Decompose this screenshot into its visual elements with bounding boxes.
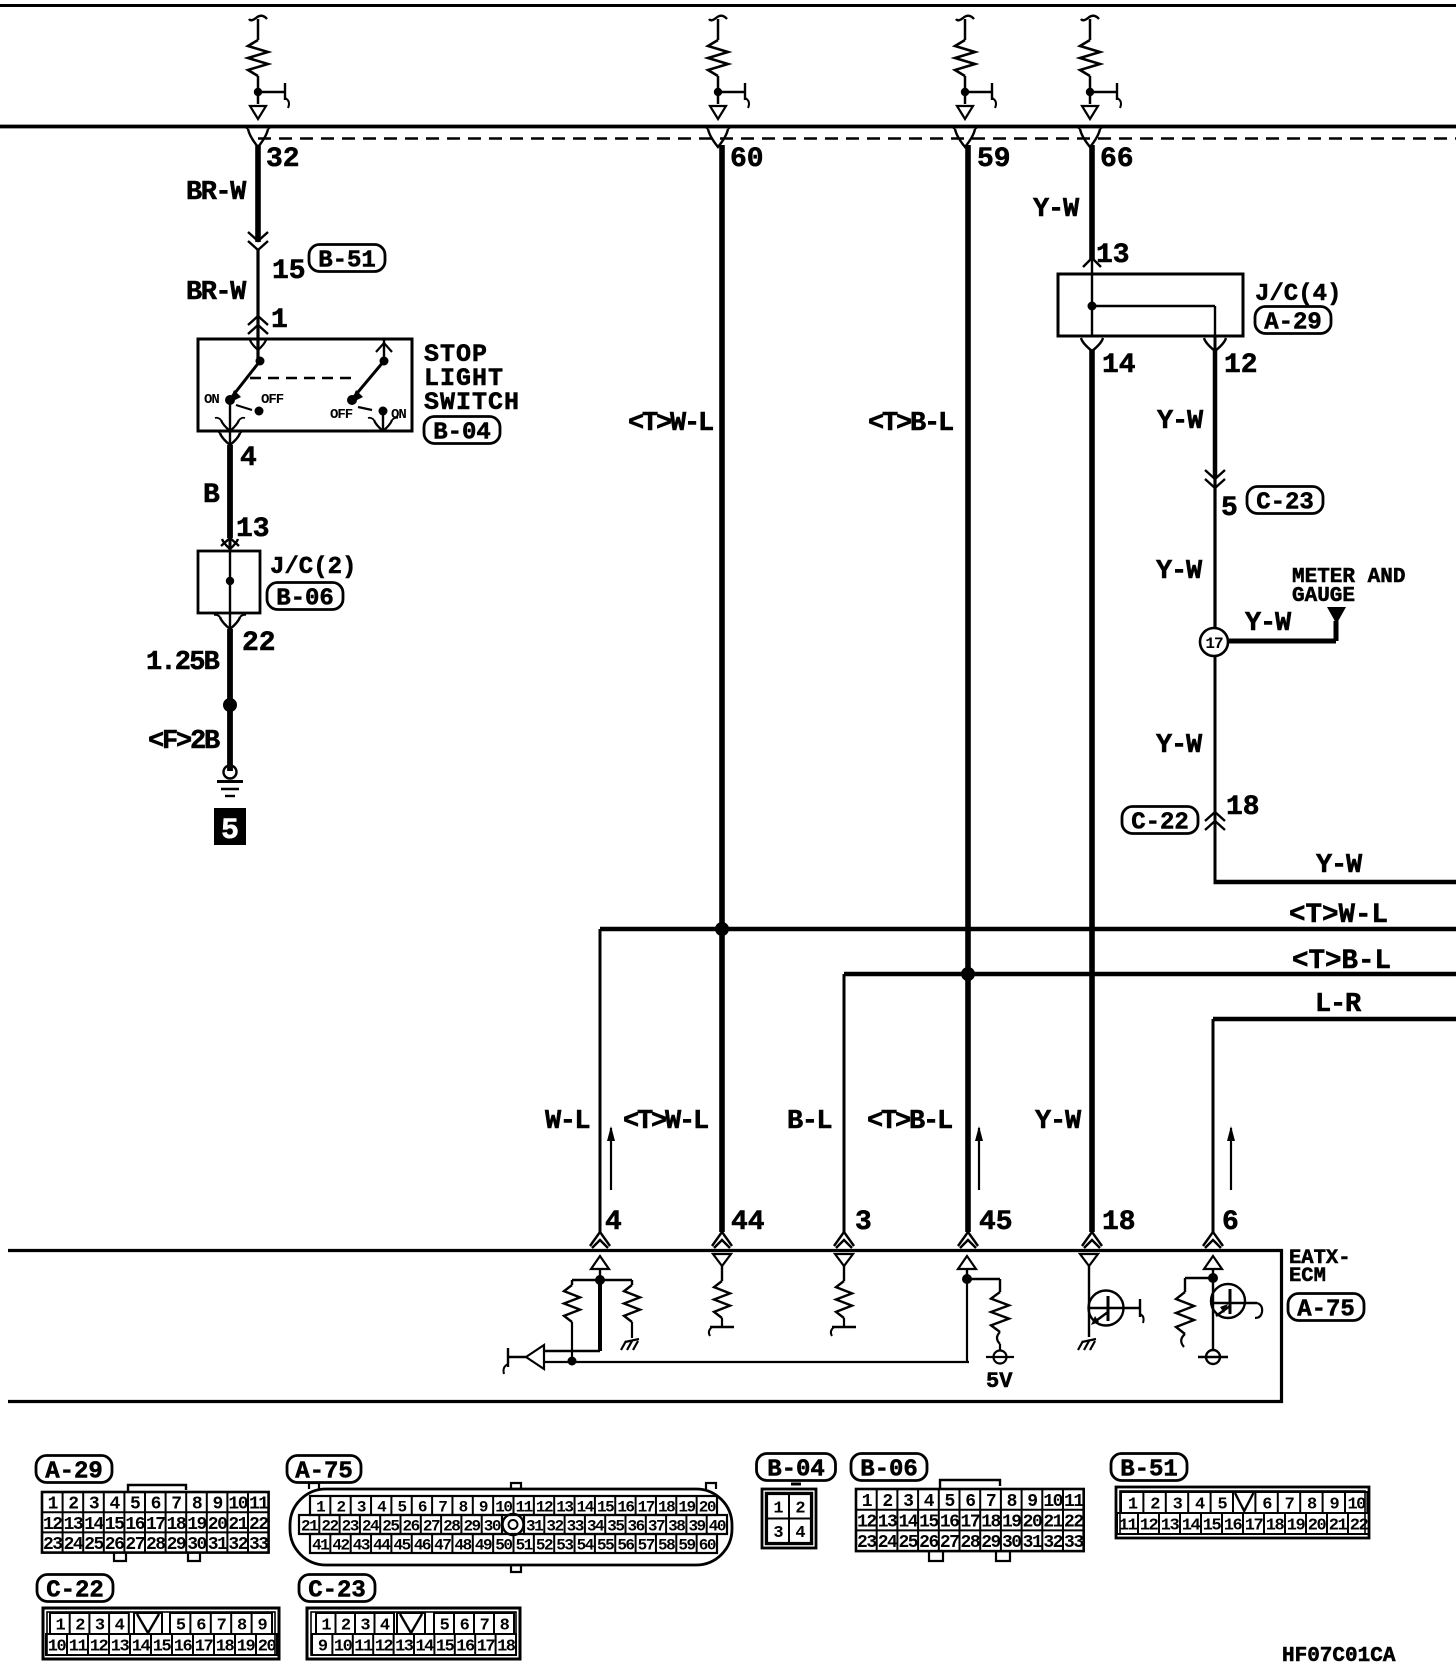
svg-text:8: 8 (1007, 1492, 1017, 1512)
svg-text:HF07C01CA: HF07C01CA (1282, 1645, 1396, 1668)
svg-text:38: 38 (668, 1517, 685, 1535)
svg-text:30: 30 (187, 1535, 206, 1555)
svg-text:C-22: C-22 (46, 1578, 104, 1605)
svg-text:1: 1 (773, 1499, 783, 1518)
svg-text:25: 25 (898, 1533, 917, 1553)
svg-text:8: 8 (1307, 1496, 1317, 1515)
svg-text:20: 20 (1308, 1517, 1327, 1536)
svg-text:3: 3 (773, 1524, 783, 1543)
svg-text:27: 27 (423, 1517, 440, 1535)
svg-text:6: 6 (418, 1498, 427, 1516)
svg-text:16: 16 (1224, 1517, 1243, 1536)
svg-text:58: 58 (658, 1536, 675, 1554)
svg-text:13: 13 (395, 1638, 414, 1657)
svg-text:2: 2 (75, 1617, 85, 1636)
svg-text:4: 4 (380, 1617, 390, 1636)
svg-text:13: 13 (1161, 1517, 1180, 1536)
svg-text:7: 7 (217, 1617, 227, 1636)
svg-text:23: 23 (43, 1535, 62, 1555)
svg-text:24: 24 (362, 1517, 380, 1535)
svg-text:29: 29 (167, 1535, 186, 1555)
svg-text:BR-W: BR-W (186, 178, 247, 208)
svg-text:A-29: A-29 (45, 1459, 103, 1486)
svg-text:<T>W-L: <T>W-L (623, 1107, 708, 1137)
svg-text:4: 4 (605, 1207, 622, 1238)
svg-text:2: 2 (1150, 1496, 1160, 1515)
svg-text:6: 6 (965, 1492, 975, 1512)
svg-text:33: 33 (567, 1517, 584, 1535)
svg-text:16: 16 (940, 1513, 959, 1533)
svg-text:8: 8 (500, 1617, 510, 1636)
svg-text:34: 34 (587, 1517, 605, 1535)
svg-text:12: 12 (90, 1638, 109, 1657)
svg-text:13: 13 (111, 1638, 130, 1657)
svg-text:11: 11 (1064, 1492, 1084, 1512)
svg-text:5: 5 (130, 1495, 140, 1515)
svg-text:14: 14 (898, 1513, 918, 1533)
svg-text:2: 2 (882, 1492, 892, 1512)
svg-text:6: 6 (196, 1617, 206, 1636)
svg-text:C-23: C-23 (1256, 490, 1314, 517)
svg-text:32: 32 (228, 1535, 247, 1555)
svg-text:60: 60 (699, 1536, 716, 1554)
svg-text:14: 14 (1182, 1517, 1201, 1536)
svg-text:21: 21 (1329, 1517, 1348, 1536)
svg-text:16: 16 (125, 1515, 144, 1535)
svg-text:48: 48 (455, 1536, 472, 1554)
svg-text:9: 9 (318, 1638, 328, 1657)
svg-text:26: 26 (919, 1533, 938, 1553)
svg-text:8: 8 (459, 1498, 468, 1516)
svg-text:1: 1 (316, 1498, 325, 1516)
svg-text:7: 7 (438, 1498, 447, 1516)
svg-text:17: 17 (961, 1513, 980, 1533)
svg-text:18: 18 (216, 1638, 235, 1657)
svg-text:21: 21 (301, 1517, 318, 1535)
svg-text:B-06: B-06 (276, 586, 334, 613)
svg-text:44: 44 (731, 1207, 765, 1238)
svg-text:1: 1 (1128, 1496, 1138, 1515)
svg-text:9: 9 (479, 1498, 488, 1516)
svg-text:C-23: C-23 (308, 1578, 366, 1605)
svg-text:45: 45 (393, 1536, 410, 1554)
svg-text:GAUGE: GAUGE (1292, 585, 1355, 608)
svg-text:<T>B-L: <T>B-L (867, 1107, 952, 1137)
svg-text:23: 23 (342, 1517, 359, 1535)
svg-text:18: 18 (1102, 1207, 1136, 1238)
svg-text:B-04: B-04 (433, 420, 491, 447)
svg-text:41: 41 (312, 1536, 329, 1554)
svg-text:3: 3 (903, 1492, 913, 1512)
svg-text:33: 33 (249, 1535, 268, 1555)
svg-text:66: 66 (1100, 144, 1134, 175)
svg-text:45: 45 (979, 1207, 1013, 1238)
svg-text:9: 9 (257, 1617, 267, 1636)
svg-text:14: 14 (132, 1638, 151, 1657)
svg-text:16: 16 (617, 1498, 634, 1516)
svg-text:B-L: B-L (787, 1107, 831, 1137)
svg-text:57: 57 (638, 1536, 655, 1554)
svg-text:27: 27 (125, 1535, 144, 1555)
svg-text:29: 29 (463, 1517, 480, 1535)
svg-text:<T>W-L: <T>W-L (1289, 900, 1388, 931)
svg-text:OFF: OFF (330, 407, 353, 423)
svg-text:28: 28 (443, 1517, 460, 1535)
svg-text:Y-W: Y-W (1156, 731, 1203, 761)
svg-text:<F>2B: <F>2B (148, 727, 220, 757)
svg-text:11: 11 (69, 1638, 88, 1657)
svg-text:B: B (203, 480, 220, 511)
svg-text:15: 15 (105, 1515, 124, 1535)
svg-text:12: 12 (1140, 1517, 1159, 1536)
svg-text:3: 3 (357, 1498, 366, 1516)
svg-text:7: 7 (480, 1617, 490, 1636)
svg-text:32: 32 (1043, 1533, 1062, 1553)
svg-text:12: 12 (375, 1638, 394, 1657)
svg-text:B-51: B-51 (1120, 1457, 1178, 1484)
svg-text:12: 12 (857, 1513, 876, 1533)
svg-text:Y-W: Y-W (1156, 557, 1203, 587)
svg-text:1: 1 (271, 305, 288, 336)
svg-text:2: 2 (336, 1498, 345, 1516)
svg-text:17: 17 (195, 1638, 214, 1657)
svg-text:B-04: B-04 (767, 1457, 825, 1484)
svg-text:55: 55 (597, 1536, 614, 1554)
svg-text:32: 32 (546, 1517, 563, 1535)
svg-text:12: 12 (536, 1498, 553, 1516)
svg-text:10: 10 (1347, 1496, 1366, 1515)
svg-text:5: 5 (398, 1498, 407, 1516)
svg-text:44: 44 (373, 1536, 391, 1554)
svg-text:2: 2 (68, 1495, 78, 1515)
svg-text:2: 2 (341, 1617, 351, 1636)
svg-text:19: 19 (678, 1498, 695, 1516)
svg-text:W-L: W-L (545, 1107, 589, 1137)
svg-text:46: 46 (414, 1536, 431, 1554)
svg-text:19: 19 (1287, 1517, 1306, 1536)
svg-text:22: 22 (1064, 1513, 1083, 1533)
svg-text:4: 4 (240, 443, 257, 474)
svg-text:Y-W: Y-W (1035, 1107, 1082, 1137)
svg-text:33: 33 (1064, 1533, 1083, 1553)
svg-text:13: 13 (236, 514, 270, 545)
svg-text:25: 25 (382, 1517, 399, 1535)
svg-text:39: 39 (688, 1517, 705, 1535)
svg-text:21: 21 (1043, 1513, 1063, 1533)
svg-text:SWITCH: SWITCH (424, 388, 520, 417)
svg-text:A-29: A-29 (1264, 310, 1322, 337)
svg-text:11: 11 (354, 1638, 373, 1657)
svg-text:24: 24 (878, 1533, 898, 1553)
svg-text:B-51: B-51 (318, 248, 376, 275)
svg-text:27: 27 (940, 1533, 959, 1553)
svg-text:18: 18 (497, 1638, 516, 1657)
svg-text:B-06: B-06 (860, 1457, 918, 1484)
svg-text:16: 16 (174, 1638, 193, 1657)
svg-text:59: 59 (977, 144, 1011, 175)
svg-text:5: 5 (221, 814, 239, 848)
svg-text:26: 26 (403, 1517, 420, 1535)
svg-text:36: 36 (628, 1517, 645, 1535)
svg-text:7: 7 (1285, 1496, 1295, 1515)
svg-text:19: 19 (237, 1638, 256, 1657)
svg-text:47: 47 (434, 1536, 451, 1554)
svg-text:4: 4 (1195, 1496, 1205, 1515)
svg-text:43: 43 (353, 1536, 370, 1554)
svg-text:3: 3 (89, 1495, 99, 1515)
svg-text:30: 30 (484, 1517, 501, 1535)
svg-text:12: 12 (1224, 350, 1258, 381)
svg-text:6: 6 (151, 1495, 161, 1515)
svg-text:1: 1 (55, 1617, 65, 1636)
svg-text:3: 3 (1173, 1496, 1183, 1515)
svg-text:8: 8 (237, 1617, 247, 1636)
svg-text:9: 9 (1027, 1492, 1037, 1512)
svg-text:5: 5 (1221, 493, 1238, 524)
svg-text:17: 17 (146, 1515, 165, 1535)
svg-text:35: 35 (607, 1517, 624, 1535)
svg-text:19: 19 (1002, 1513, 1021, 1533)
svg-text:50: 50 (495, 1536, 512, 1554)
svg-text:15: 15 (436, 1638, 455, 1657)
svg-text:40: 40 (709, 1517, 726, 1535)
svg-text:23: 23 (857, 1533, 876, 1553)
svg-text:15: 15 (272, 256, 306, 287)
svg-text:13: 13 (878, 1513, 897, 1533)
svg-text:13: 13 (556, 1498, 573, 1516)
svg-text:OFF: OFF (261, 392, 284, 408)
svg-text:12: 12 (43, 1515, 62, 1535)
svg-text:52: 52 (536, 1536, 553, 1554)
svg-text:14: 14 (1102, 350, 1136, 381)
svg-text:10: 10 (1043, 1492, 1062, 1512)
svg-text:11: 11 (1119, 1517, 1138, 1536)
svg-text:J/C(4): J/C(4) (1255, 281, 1341, 308)
svg-text:16: 16 (456, 1638, 475, 1657)
svg-text:13: 13 (64, 1515, 83, 1535)
svg-text:8: 8 (192, 1495, 202, 1515)
svg-text:10: 10 (334, 1638, 353, 1657)
svg-text:9: 9 (212, 1495, 222, 1515)
svg-text:6: 6 (1222, 1207, 1239, 1238)
svg-text:21: 21 (228, 1515, 248, 1535)
svg-text:4: 4 (795, 1524, 805, 1543)
svg-text:53: 53 (556, 1536, 573, 1554)
svg-text:1: 1 (321, 1617, 331, 1636)
svg-text:14: 14 (577, 1498, 595, 1516)
svg-text:18: 18 (981, 1513, 1000, 1533)
svg-text:14: 14 (84, 1515, 104, 1535)
svg-text:26: 26 (105, 1535, 124, 1555)
svg-text:17: 17 (638, 1498, 655, 1516)
svg-text:17: 17 (1245, 1517, 1264, 1536)
svg-text:28: 28 (146, 1535, 165, 1555)
svg-text:32: 32 (266, 144, 300, 175)
svg-text:9: 9 (1329, 1496, 1339, 1515)
svg-text:18: 18 (658, 1498, 675, 1516)
svg-text:ON: ON (204, 392, 219, 408)
svg-text:<T>W-L: <T>W-L (628, 409, 713, 439)
svg-text:ON: ON (391, 407, 406, 423)
svg-text:11: 11 (249, 1495, 269, 1515)
svg-text:22: 22 (1350, 1517, 1369, 1536)
svg-text:ECM: ECM (1289, 1265, 1326, 1288)
svg-text:7: 7 (986, 1492, 996, 1512)
svg-text:5: 5 (944, 1492, 954, 1512)
svg-text:10: 10 (48, 1638, 67, 1657)
svg-text:29: 29 (981, 1533, 1000, 1553)
svg-text:3: 3 (95, 1617, 105, 1636)
svg-text:11: 11 (516, 1498, 533, 1516)
svg-text:7: 7 (171, 1495, 181, 1515)
svg-text:5: 5 (440, 1617, 450, 1636)
svg-text:C-22: C-22 (1131, 810, 1189, 837)
svg-text:15: 15 (919, 1513, 938, 1533)
svg-text:BR-W: BR-W (186, 278, 247, 308)
svg-text:Y-W: Y-W (1157, 407, 1204, 437)
svg-text:60: 60 (730, 144, 764, 175)
svg-text:18: 18 (1266, 1517, 1285, 1536)
svg-text:3: 3 (855, 1207, 872, 1238)
svg-text:17: 17 (477, 1638, 496, 1657)
svg-text:20: 20 (699, 1498, 716, 1516)
svg-text:5: 5 (1217, 1496, 1227, 1515)
svg-text:6: 6 (460, 1617, 470, 1636)
svg-text:18: 18 (1226, 792, 1260, 823)
svg-text:20: 20 (1023, 1513, 1042, 1533)
svg-text:<T>B-L: <T>B-L (868, 409, 953, 439)
svg-text:L-R: L-R (1315, 990, 1362, 1020)
svg-text:42: 42 (332, 1536, 349, 1554)
svg-text:54: 54 (577, 1536, 595, 1554)
svg-text:20: 20 (258, 1638, 277, 1657)
svg-text:14: 14 (415, 1638, 434, 1657)
svg-text:Y-W: Y-W (1033, 195, 1080, 225)
svg-text:18: 18 (167, 1515, 186, 1535)
svg-text:19: 19 (187, 1515, 206, 1535)
svg-text:31: 31 (1023, 1533, 1043, 1553)
svg-text:4: 4 (115, 1617, 125, 1636)
svg-text:49: 49 (475, 1536, 492, 1554)
svg-text:25: 25 (84, 1535, 103, 1555)
svg-text:22: 22 (321, 1517, 338, 1535)
svg-text:20: 20 (208, 1515, 227, 1535)
svg-text:31: 31 (526, 1517, 543, 1535)
svg-text:10: 10 (228, 1495, 247, 1515)
svg-text:31: 31 (208, 1535, 228, 1555)
svg-text:A-75: A-75 (1297, 1297, 1355, 1324)
svg-text:37: 37 (648, 1517, 665, 1535)
svg-text:Y-W: Y-W (1316, 851, 1363, 881)
svg-text:15: 15 (597, 1498, 614, 1516)
svg-text:17: 17 (1205, 635, 1223, 653)
svg-text:1.25B: 1.25B (146, 648, 220, 678)
svg-text:J/C(2): J/C(2) (270, 554, 356, 581)
svg-text:3: 3 (360, 1617, 370, 1636)
svg-text:56: 56 (617, 1536, 634, 1554)
svg-text:15: 15 (1203, 1517, 1222, 1536)
svg-text:5: 5 (176, 1617, 186, 1636)
svg-text:59: 59 (678, 1536, 695, 1554)
svg-text:6: 6 (1262, 1496, 1272, 1515)
svg-text:15: 15 (153, 1638, 172, 1657)
svg-text:Y-W: Y-W (1245, 609, 1292, 639)
svg-text:51: 51 (516, 1536, 533, 1554)
svg-text:30: 30 (1002, 1533, 1021, 1553)
svg-text:22: 22 (242, 628, 276, 659)
svg-text:5V: 5V (986, 1369, 1013, 1394)
svg-text:2: 2 (795, 1499, 805, 1518)
svg-text:28: 28 (961, 1533, 980, 1553)
svg-text:A-75: A-75 (295, 1459, 353, 1486)
svg-text:24: 24 (64, 1535, 84, 1555)
svg-text:22: 22 (249, 1515, 268, 1535)
